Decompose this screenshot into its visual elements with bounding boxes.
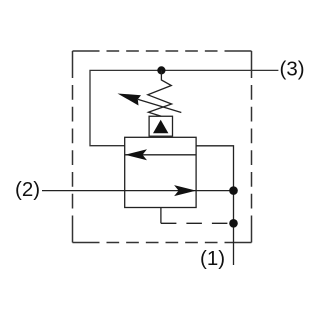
port (3) pilot line and loop wire	[90, 70, 278, 145]
svg-text:(2): (2)	[15, 178, 40, 201]
main valve body	[125, 137, 196, 207]
drain step wire below body	[160, 208, 162, 224]
junction dot node (1)	[229, 186, 238, 195]
closed path flow line (left arrow)	[125, 149, 196, 160]
junction dot node (3)	[157, 66, 165, 74]
adjustment arrow	[118, 94, 182, 113]
port (1) wire (right side down to port)	[196, 146, 233, 265]
svg-text:(3): (3)	[280, 58, 305, 81]
valve envelope (dashed boundary)	[73, 51, 252, 243]
port (2) line with flow arrow (right)	[42, 185, 234, 196]
pilot poppet triangle	[153, 120, 168, 134]
junction dot drain node	[229, 219, 238, 228]
svg-text:(1): (1)	[200, 247, 225, 270]
dashed drain line	[161, 222, 234, 224]
pilot poppet box	[149, 116, 172, 136]
spring	[148, 70, 172, 116]
